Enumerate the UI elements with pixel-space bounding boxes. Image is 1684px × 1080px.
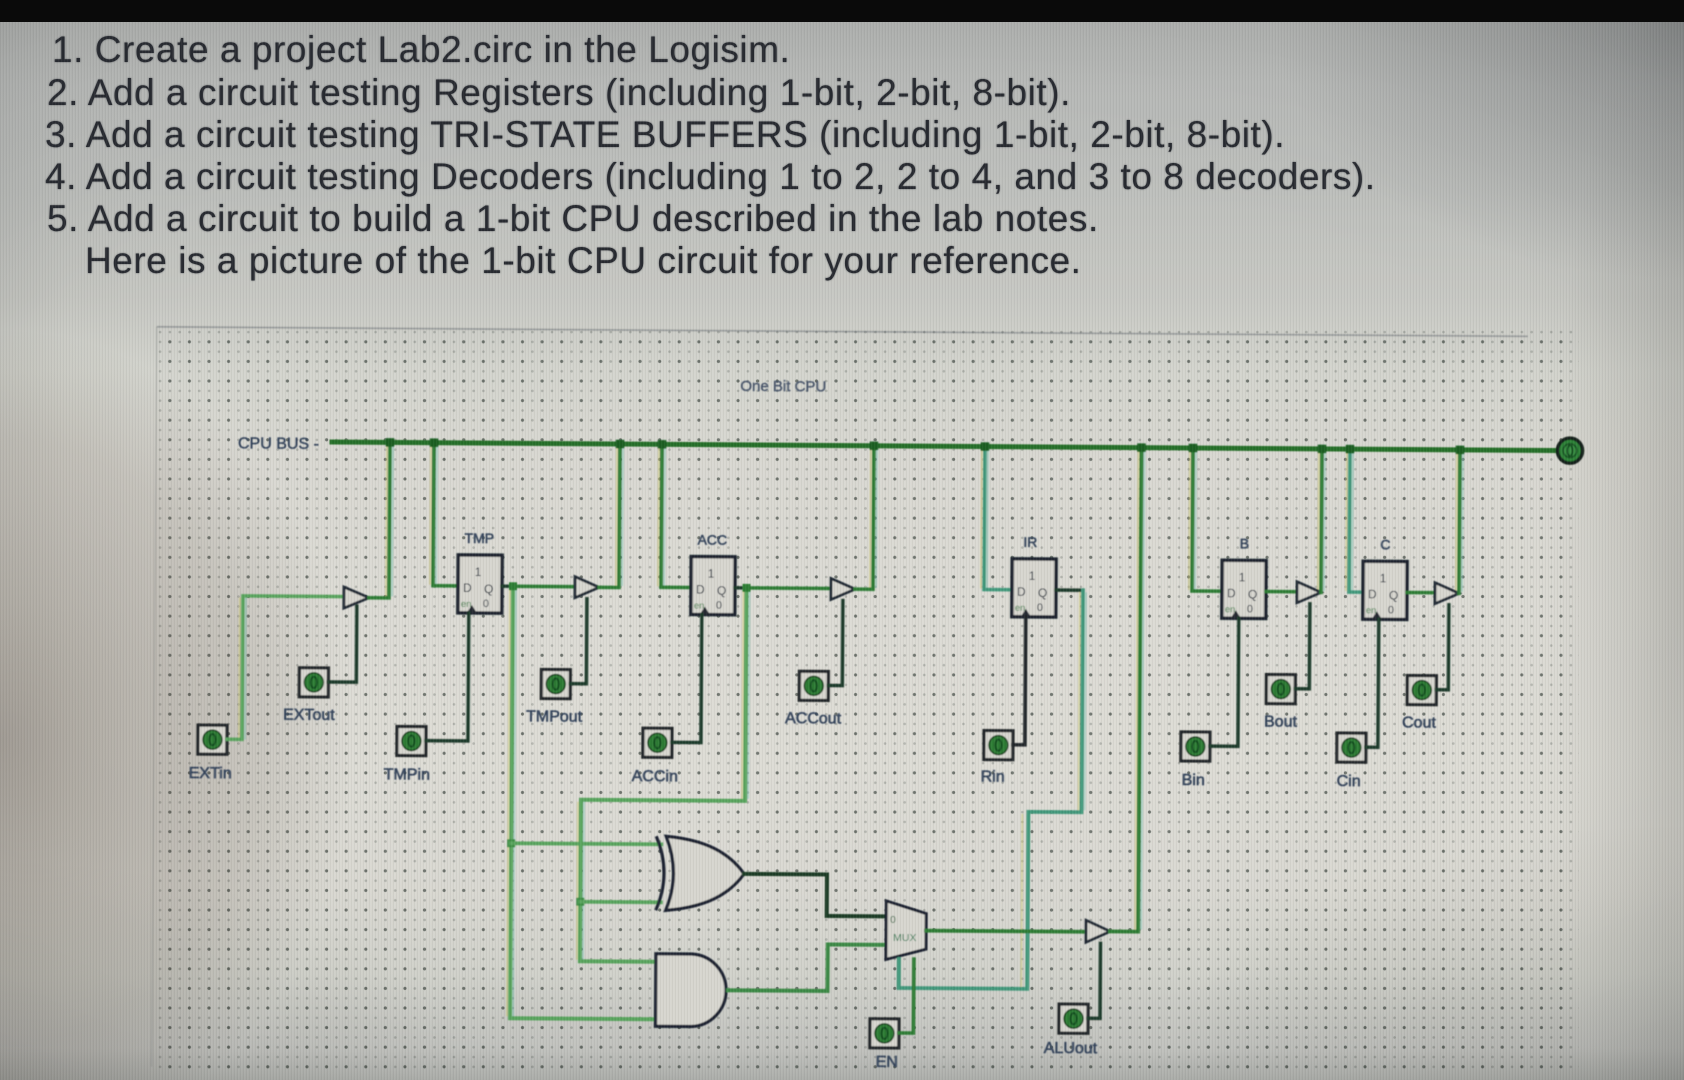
input pin EXTout — [299, 668, 328, 697]
wire ACC Q to ALU (down-left) — [580, 587, 746, 903]
wire bus drop to IR D — [984, 447, 1013, 590]
wire colour-fringe highlights (photo artifact) — [238, 597, 241, 739]
flip-flop ACC — [691, 557, 735, 615]
flip-flop TMP — [458, 555, 502, 613]
input pin Bin — [1181, 732, 1210, 761]
junction bus/C-D — [1346, 445, 1355, 454]
circuit canvas left border — [152, 327, 157, 1067]
wire TMP Q junction to XOR input A — [511, 843, 661, 844]
junction bus/B-buffer — [1318, 445, 1327, 454]
junction bus/TMP-D — [430, 438, 439, 447]
input pin EN — [870, 1019, 899, 1048]
wire Rin to IR clock — [1013, 617, 1026, 745]
input pin Rin — [984, 731, 1013, 760]
tri-state buffer ALU — [1086, 920, 1110, 942]
junction ACC-Q/XOR-B — [576, 898, 584, 906]
junction TMP Q — [509, 582, 517, 590]
input pin Bout — [1266, 675, 1295, 704]
input pin TMPout — [541, 669, 570, 698]
wire bus drop to C D — [1349, 449, 1364, 592]
tri-state buffer TMP — [575, 577, 599, 598]
wire B Q to buffer input — [1266, 590, 1297, 594]
flip-flop IR — [1012, 559, 1056, 617]
multiplexer MUX — [886, 901, 926, 960]
junction bus/ACC-buffer — [870, 442, 879, 451]
wire MUX output to ALU buffer — [926, 931, 1086, 932]
wire bus drop to B D — [1192, 448, 1223, 591]
wire ALU buffer output to bus — [1110, 447, 1141, 931]
wire EXTin to buffer input — [227, 596, 344, 740]
wire IR Q output — [1056, 588, 1083, 592]
wire ALUout to ALU buffer enable — [1088, 943, 1101, 1018]
wire ACCin to ACC clock — [672, 614, 702, 742]
junction bus/TMP-buffer — [616, 440, 625, 449]
junction bus/ALU — [1137, 443, 1146, 452]
wire ACC Q to buffer input — [746, 586, 830, 590]
wire ACC Q output — [735, 586, 746, 589]
input pin ACCin — [643, 728, 672, 757]
wire TMP Q to ALU (down) — [511, 586, 513, 843]
tri-state buffer ACC — [831, 578, 855, 599]
junction bus/EXT — [386, 438, 395, 447]
wire Bin to B clock — [1210, 618, 1239, 746]
circuit canvas top border — [157, 327, 1528, 337]
junction bus/C-buffer — [1456, 446, 1465, 455]
wire ACCout to buffer enable — [828, 600, 843, 685]
wire C buffer output to bus — [1459, 450, 1460, 593]
input pin EXTin — [198, 725, 227, 754]
output pin BUS (right end) — [1557, 438, 1582, 463]
wire TMPout to buffer enable — [570, 599, 587, 684]
junction ACC Q — [742, 584, 750, 592]
junction TMP-Q/XOR — [507, 839, 515, 847]
input pin Cin — [1337, 733, 1366, 762]
wire AND output to MUX input 1 — [728, 944, 886, 992]
flip-flop B — [1222, 560, 1266, 618]
tri-state buffer C — [1435, 583, 1459, 604]
wire ACC buffer output to bus — [855, 446, 874, 590]
wire MUX select from IR — [897, 959, 901, 988]
input pin ACCout — [799, 671, 828, 700]
wire IR Q to MUX select chain — [899, 589, 1083, 989]
wire EXT buffer output to bus — [369, 442, 390, 598]
junction bus/IR-D — [981, 442, 990, 451]
wire CPU BUS (main bus) — [332, 442, 1556, 451]
wire ACC Q junction to XOR input B — [580, 900, 660, 904]
junction bus/ACC-D — [658, 440, 667, 449]
wire TMPin to TMP clock — [426, 613, 469, 741]
tri-state buffer EXT — [344, 587, 369, 608]
flip-flop C — [1363, 561, 1407, 619]
and gate U2 — [655, 954, 726, 1027]
wire bus drop to ACC D — [661, 444, 692, 587]
wire bus drop to TMP D — [433, 443, 459, 586]
wire Bout to buffer enable — [1295, 604, 1310, 689]
wire EXTout to buffer enable — [328, 606, 357, 682]
input pin TMPin — [397, 726, 426, 755]
wire EN to MUX enable — [899, 959, 914, 1033]
input pin ALUout — [1059, 1004, 1088, 1033]
xor gate U1 — [666, 836, 745, 911]
junction bus/B-D — [1189, 444, 1198, 453]
wire TMP Q output — [502, 584, 513, 587]
input pin Cout — [1407, 676, 1436, 705]
wire Cout to buffer enable — [1436, 605, 1449, 690]
wire Cin to C clock — [1366, 619, 1379, 747]
tri-state buffer B — [1297, 582, 1321, 603]
wire XOR output to MUX input 0 — [744, 874, 887, 916]
wire C Q to buffer input — [1407, 591, 1435, 595]
wire B buffer output to bus — [1321, 449, 1322, 592]
wire TMP Q to buffer input — [513, 584, 575, 588]
wire TMP buffer output to bus — [599, 444, 620, 588]
